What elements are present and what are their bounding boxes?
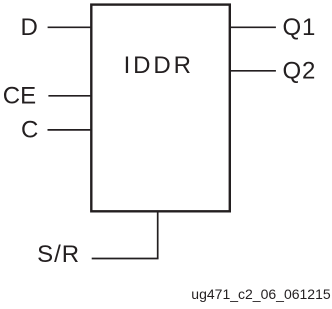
IDDR block U1 [91,5,230,212]
wire CE input [48,95,91,97]
svg-text:Q2: Q2 [283,58,317,85]
svg-text:ug471_c2_06_061215: ug471_c2_06_061215 [191,286,331,302]
wire Q2 output [230,70,276,72]
wire S/R vertical segment [157,211,159,258]
svg-text:Q1: Q1 [283,14,317,41]
wire Q1 output [230,26,276,28]
svg-text:IDDR: IDDR [124,52,194,79]
svg-text:C: C [21,117,38,144]
wire D input [48,26,92,28]
wire C input [48,129,92,131]
wire S/R horizontal segment [92,258,159,260]
svg-text:S/R: S/R [37,241,80,268]
svg-text:D: D [21,14,38,41]
svg-text:CE: CE [3,83,36,110]
